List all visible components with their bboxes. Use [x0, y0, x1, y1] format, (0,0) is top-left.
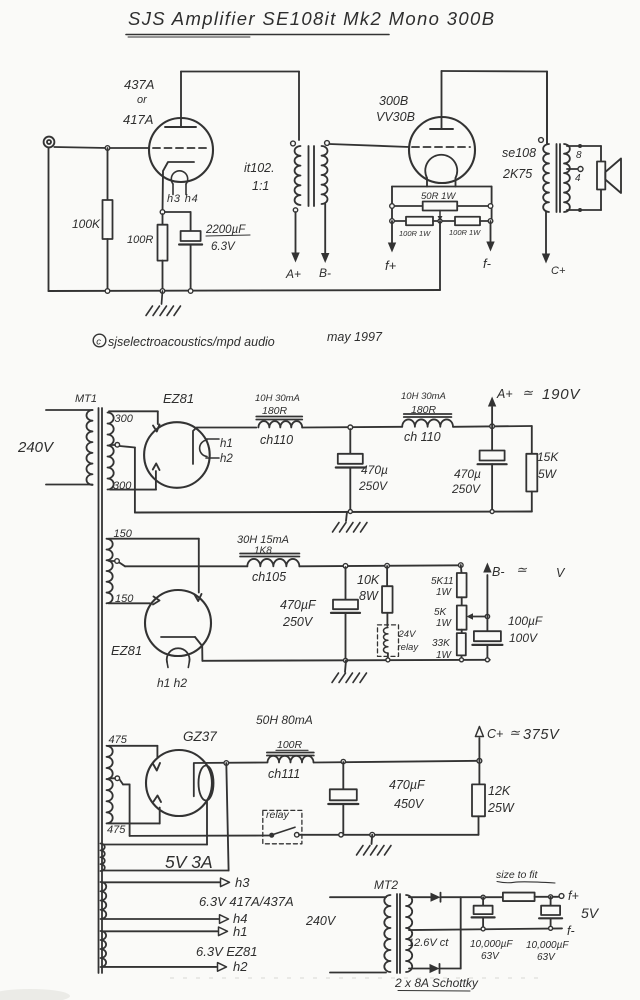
svg-text:B-: B-: [319, 266, 331, 280]
svg-text:100R 1W: 100R 1W: [449, 228, 481, 237]
svg-text:250V: 250V: [358, 479, 388, 493]
svg-text:2200µF: 2200µF: [205, 224, 246, 236]
svg-text:MT1: MT1: [75, 393, 97, 405]
svg-text:240V: 240V: [17, 439, 55, 456]
svg-text:c: c: [96, 337, 101, 348]
svg-text:6.3V: 6.3V: [211, 241, 236, 253]
svg-text:h2: h2: [220, 453, 233, 465]
svg-text:f-: f-: [567, 924, 575, 938]
svg-text:100R 1W: 100R 1W: [399, 229, 431, 238]
svg-text:1W: 1W: [436, 650, 453, 661]
svg-text:10H 30mA: 10H 30mA: [401, 391, 446, 402]
svg-text:250V: 250V: [451, 482, 481, 496]
svg-text:10,000µF: 10,000µF: [470, 939, 513, 950]
svg-text:EZ81: EZ81: [111, 643, 142, 658]
svg-text:63V: 63V: [481, 951, 500, 962]
svg-text:240V: 240V: [305, 914, 337, 928]
svg-text:8W: 8W: [359, 589, 379, 603]
svg-text:15K: 15K: [537, 450, 559, 464]
svg-text:300B: 300B: [379, 94, 408, 108]
svg-text:100R: 100R: [277, 739, 303, 751]
svg-text:A+: A+: [496, 387, 513, 401]
svg-text:h1: h1: [233, 924, 247, 939]
svg-text:ch111: ch111: [268, 767, 300, 781]
svg-text:h3 h4: h3 h4: [167, 193, 199, 205]
svg-text:GZ37: GZ37: [183, 729, 217, 744]
svg-text:250V: 250V: [282, 615, 314, 629]
svg-text:B-: B-: [492, 565, 505, 579]
svg-text:5W: 5W: [538, 467, 558, 481]
svg-text:f+: f+: [568, 889, 579, 903]
svg-text:50R 1W: 50R 1W: [421, 191, 456, 202]
svg-text:h1 h2: h1 h2: [157, 676, 187, 690]
svg-text:h3: h3: [235, 875, 250, 890]
svg-text:6.3V 417A/437A: 6.3V 417A/437A: [199, 894, 294, 909]
svg-text:C+: C+: [551, 265, 566, 277]
svg-text:470µ: 470µ: [361, 463, 388, 477]
svg-text:1:1: 1:1: [252, 179, 269, 193]
svg-text:5V 3A: 5V 3A: [165, 852, 213, 872]
svg-text:5K11: 5K11: [431, 576, 454, 587]
svg-text:size to fit: size to fit: [496, 869, 539, 881]
svg-text:190V: 190V: [542, 386, 581, 403]
svg-text:417A: 417A: [123, 112, 153, 127]
svg-text:25W: 25W: [487, 801, 515, 815]
svg-text:100V: 100V: [509, 631, 538, 645]
svg-text:12.6V ct: 12.6V ct: [408, 937, 449, 949]
svg-text:375V: 375V: [523, 727, 560, 743]
svg-text:6.3V EZ81: 6.3V EZ81: [196, 944, 257, 959]
svg-text:180R: 180R: [262, 405, 288, 417]
svg-text:300: 300: [113, 480, 132, 492]
svg-text:300: 300: [115, 413, 134, 425]
svg-text:ch110: ch110: [260, 433, 293, 447]
svg-text:437A: 437A: [124, 77, 154, 92]
svg-text:100K: 100K: [72, 217, 101, 231]
svg-text:≃: ≃: [509, 725, 521, 740]
svg-text:it102.: it102.: [244, 161, 275, 175]
svg-text:MT2: MT2: [374, 878, 398, 892]
svg-text:≃: ≃: [516, 562, 528, 577]
svg-text:24V: 24V: [398, 629, 418, 640]
svg-text:1K8: 1K8: [254, 546, 272, 557]
svg-text:150: 150: [115, 593, 134, 605]
svg-text:8: 8: [576, 150, 582, 161]
svg-text:475: 475: [107, 824, 126, 836]
svg-text:33K: 33K: [432, 638, 451, 649]
svg-text:470µF: 470µF: [389, 778, 426, 792]
svg-text:f-: f-: [483, 256, 492, 271]
svg-text:or: or: [137, 94, 148, 106]
svg-text:470µ: 470µ: [454, 467, 481, 481]
svg-text:450V: 450V: [394, 797, 425, 811]
svg-text:ch105: ch105: [252, 570, 286, 584]
svg-text:180R: 180R: [411, 404, 437, 416]
svg-text:2K75: 2K75: [502, 167, 532, 181]
svg-text:100R: 100R: [127, 234, 153, 246]
svg-text:≃: ≃: [522, 385, 534, 400]
svg-text:EZ81: EZ81: [163, 391, 194, 406]
svg-text:sjselectroacoustics/mpd audio: sjselectroacoustics/mpd audio: [108, 335, 275, 349]
svg-text:475: 475: [109, 734, 128, 746]
svg-text:63V: 63V: [537, 952, 556, 963]
svg-text:100µF: 100µF: [508, 614, 543, 628]
svg-text:A+: A+: [285, 267, 301, 281]
svg-text:50H 80mA: 50H 80mA: [256, 713, 313, 727]
svg-text:5V: 5V: [581, 905, 600, 921]
svg-text:may 1997: may 1997: [327, 330, 383, 344]
svg-text:relay: relay: [266, 809, 290, 821]
svg-text:4: 4: [575, 173, 581, 184]
svg-text:relay: relay: [398, 642, 420, 653]
svg-text:10K: 10K: [357, 573, 380, 587]
svg-text:5K: 5K: [434, 607, 448, 618]
svg-text:12K: 12K: [488, 784, 511, 798]
svg-text:h1: h1: [220, 438, 233, 450]
svg-text:10,000µF: 10,000µF: [526, 940, 569, 951]
svg-text:f+: f+: [385, 258, 397, 273]
svg-text:1W: 1W: [436, 618, 453, 629]
svg-text:se108: se108: [502, 146, 536, 160]
svg-text:30H 15mA: 30H 15mA: [237, 534, 289, 546]
svg-text:2 x 8A Schottky: 2 x 8A Schottky: [394, 976, 479, 990]
svg-text:SJS Amplifier SE108it Mk2 Mono: SJS Amplifier SE108it Mk2 Mono 300B: [128, 8, 495, 29]
svg-text:C+: C+: [487, 727, 503, 741]
svg-text:150: 150: [114, 528, 133, 540]
svg-text:470µF: 470µF: [280, 598, 317, 612]
svg-text:h2: h2: [233, 959, 248, 974]
svg-text:VV30B: VV30B: [376, 110, 415, 124]
svg-text:10H 30mA: 10H 30mA: [255, 393, 300, 404]
svg-text:1W: 1W: [436, 587, 453, 598]
svg-text:ch 110: ch 110: [404, 430, 441, 444]
